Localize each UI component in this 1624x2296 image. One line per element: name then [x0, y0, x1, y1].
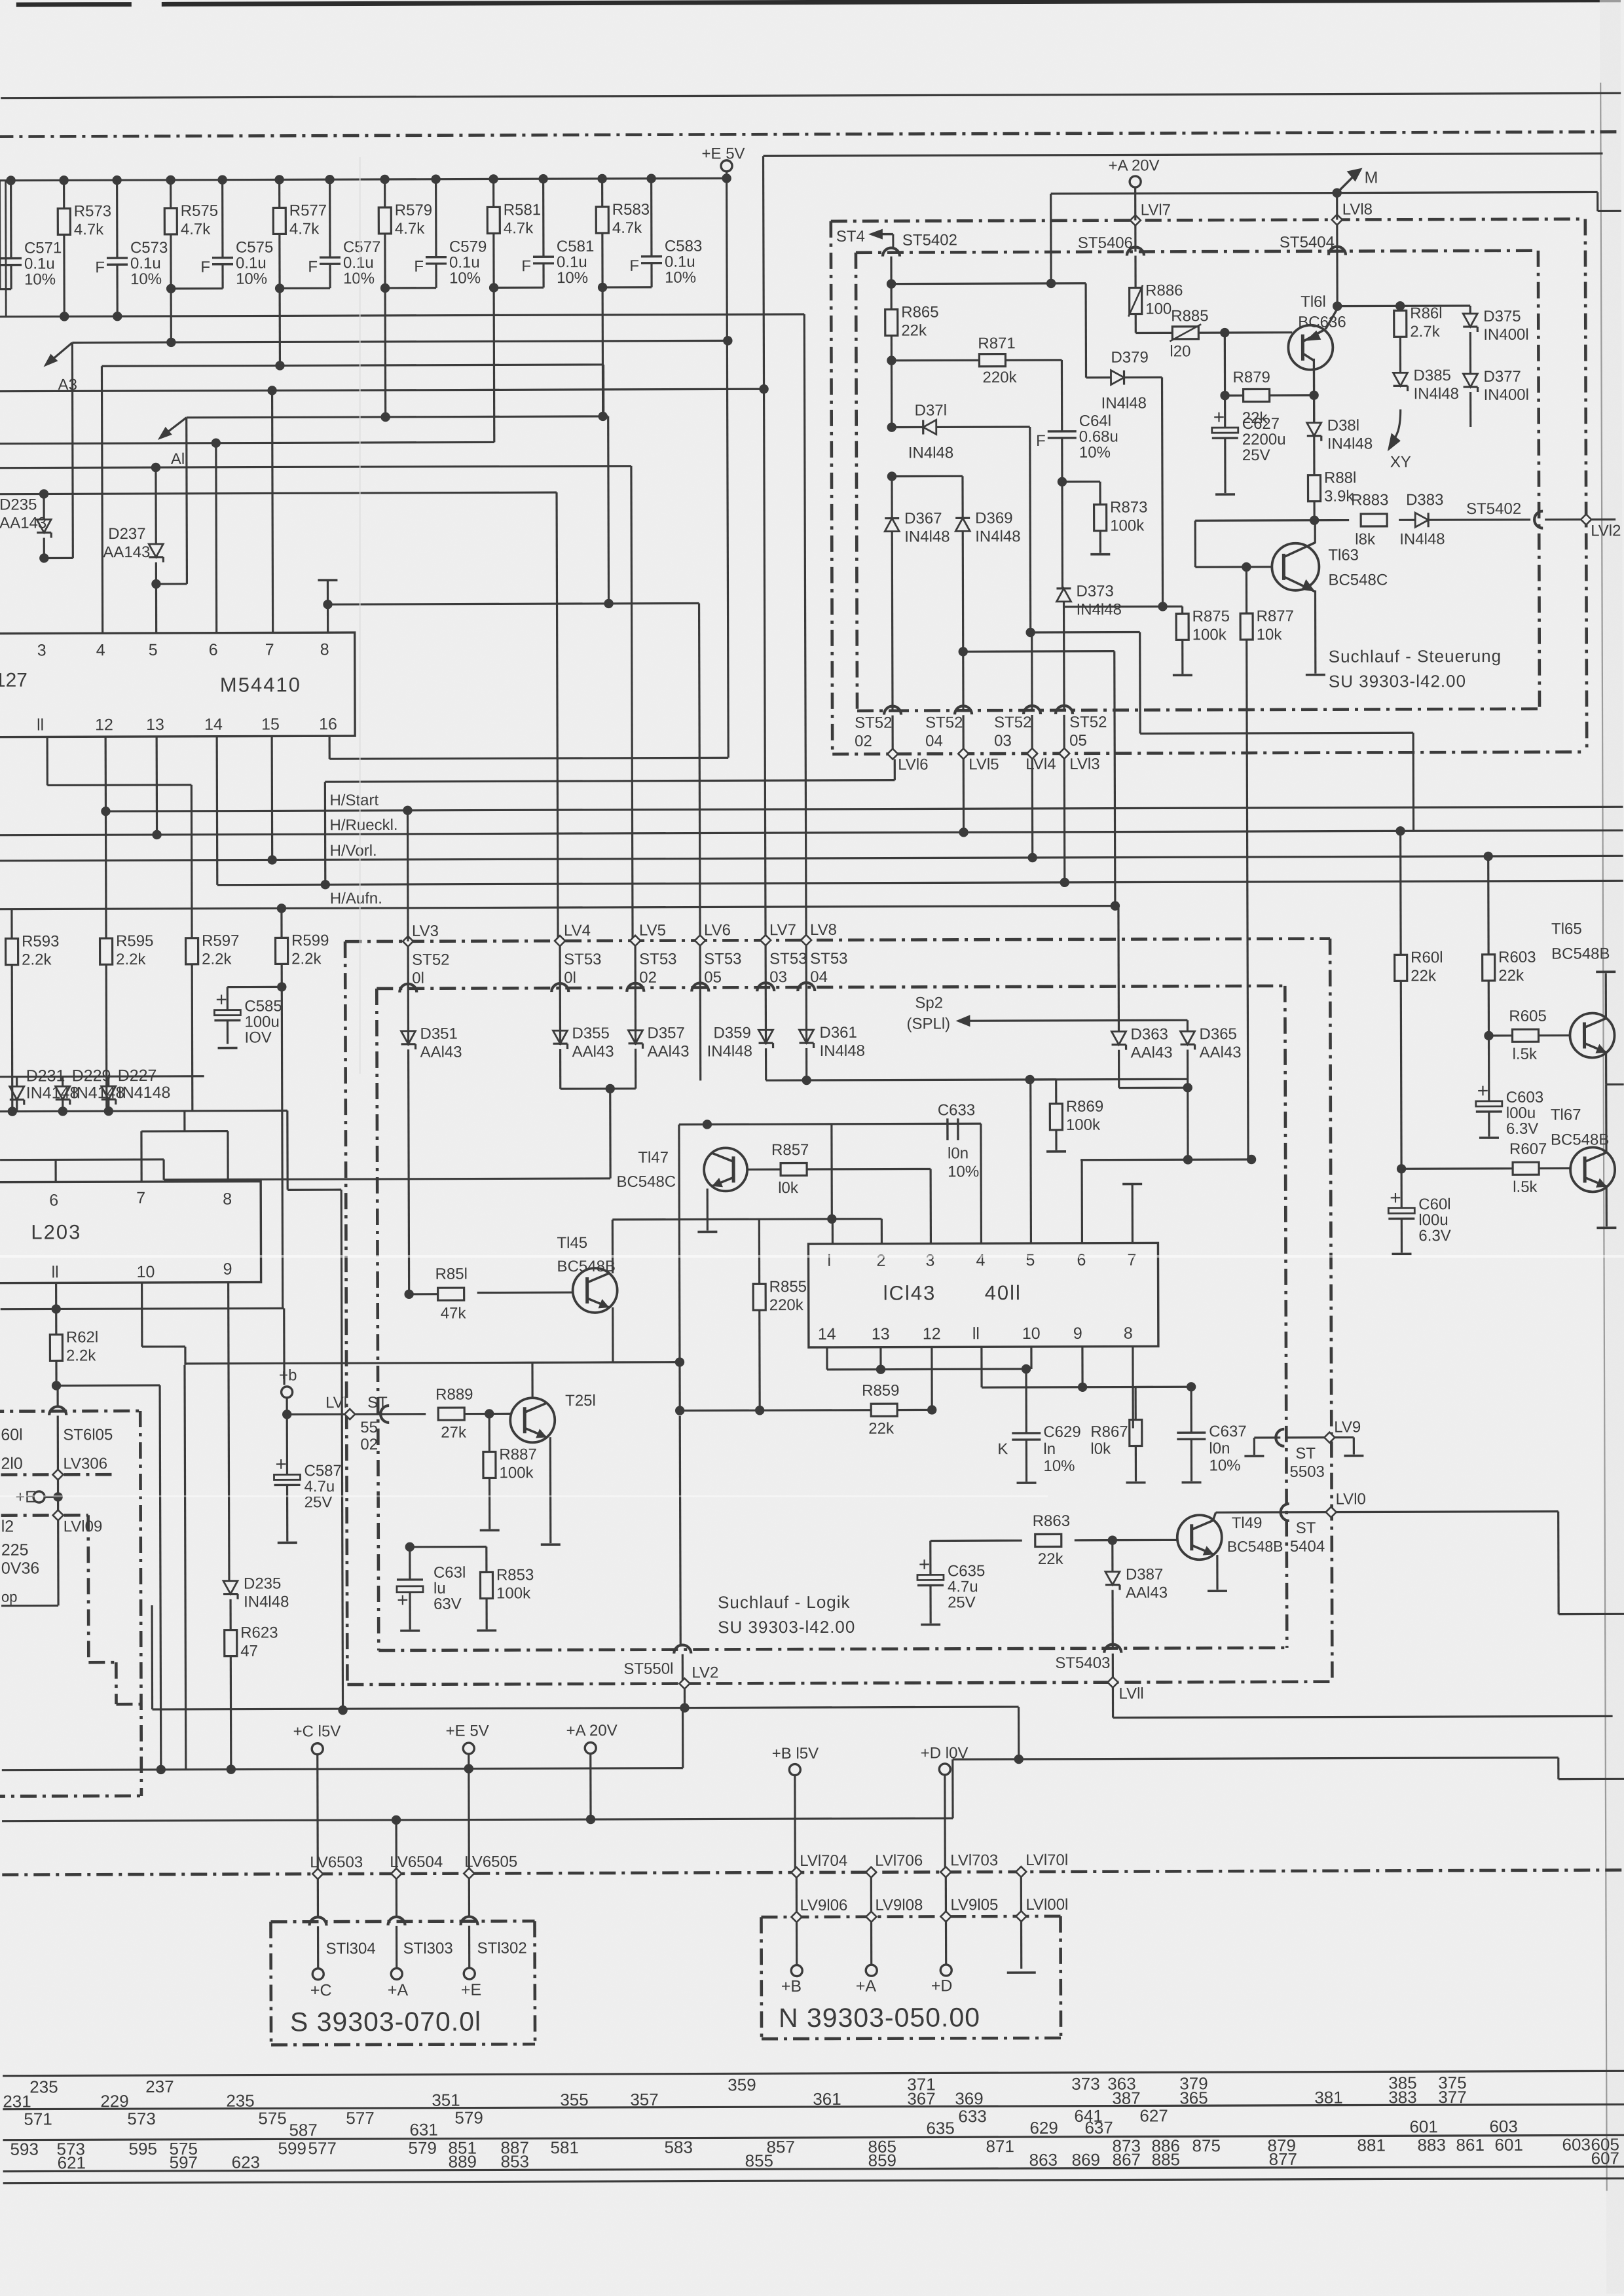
svg-text:LVl6: LVl6 [898, 756, 928, 773]
board outline Suchlauf-Steuerung inner box [856, 251, 1538, 253]
svg-text:Tl47: Tl47 [638, 1149, 669, 1167]
wire LV3 column from H/Start [407, 811, 409, 941]
svg-text:100: 100 [1145, 300, 1172, 318]
svg-text:IN400l: IN400l [1483, 326, 1528, 344]
svg-text:883: 883 [1417, 2135, 1445, 2155]
svg-text:5: 5 [1025, 1251, 1035, 1269]
wire pin6 stub [215, 443, 217, 633]
wire pin11 line y1196 [46, 737, 48, 785]
svg-text:LV5: LV5 [639, 922, 666, 939]
svg-text:ST53: ST53 [704, 950, 741, 968]
transistor T161 BC636 [1288, 325, 1333, 370]
wire pin15 stub [271, 736, 274, 860]
svg-text:+: + [1477, 1080, 1489, 1102]
svg-text:H/Start: H/Start [329, 792, 378, 809]
connector ST1303 [388, 1917, 405, 1925]
svg-text:571: 571 [24, 2109, 52, 2128]
number strip line 4 [3, 2166, 1624, 2171]
svg-text:ST5402: ST5402 [902, 231, 957, 249]
number strip line 5 [3, 2178, 1624, 2183]
svg-text:10%: 10% [665, 269, 696, 287]
svg-text:LV4: LV4 [564, 922, 591, 939]
svg-text:ll: ll [972, 1324, 980, 1343]
svg-text:225: 225 [1, 1541, 29, 1559]
wire pin9 column [1081, 1347, 1083, 1387]
wire LV1 / ST5502 line [287, 1413, 426, 1415]
svg-text:+E: +E [461, 1981, 481, 1999]
svg-text:+: + [275, 1453, 287, 1475]
wire R571 column remnant at left edge [0, 181, 1, 289]
resistor R597 2.2k [186, 938, 198, 964]
svg-text:871: 871 [986, 2136, 1014, 2156]
svg-text:4.7k: 4.7k [395, 220, 425, 238]
svg-text:AA143: AA143 [103, 543, 150, 561]
svg-text:D363: D363 [1130, 1025, 1168, 1043]
svg-text:IN4l48: IN4l48 [975, 528, 1020, 545]
connector ST5203 / LVl4 [1024, 706, 1041, 714]
svg-text:3: 3 [37, 641, 46, 659]
wire link to R601 region y1122 [1139, 632, 1141, 734]
svg-text:SU 39303-l42.00: SU 39303-l42.00 [718, 1617, 855, 1637]
svg-text:7: 7 [265, 640, 274, 659]
svg-text:577: 577 [346, 2108, 374, 2128]
diode D355 AA143 [553, 1030, 567, 1044]
board outline Suchlauf-Steuerung outer box [831, 219, 1585, 221]
svg-text:7: 7 [136, 1189, 145, 1207]
svg-text:607: 607 [1591, 2148, 1619, 2168]
wire pin16 line y1157 [329, 736, 331, 759]
capacitor C575 0.1u [217, 175, 227, 184]
svg-text:863: 863 [1029, 2150, 1058, 2170]
connector ST5205 / LVl3 [1056, 706, 1073, 714]
svg-text:+D: +D [931, 1977, 953, 1995]
svg-text:10%: 10% [24, 270, 56, 288]
diode D385 IN4148 [1399, 337, 1401, 373]
resistor R879 22k [1220, 391, 1229, 400]
board outline ST6105 box [0, 1410, 140, 1413]
svg-text:LV9l08: LV9l08 [875, 1897, 923, 1914]
wire R583 bottom to A1 line end [601, 233, 604, 416]
svg-text:875: 875 [1192, 2136, 1220, 2155]
svg-text:BC548B: BC548B [1551, 945, 1610, 962]
svg-text:R889: R889 [435, 1386, 473, 1404]
svg-text:Tl67: Tl67 [1551, 1106, 1581, 1124]
wire C633 right to pin4 [980, 1123, 982, 1243]
svg-text:LVl00l: LVl00l [1025, 1896, 1068, 1914]
connector ST1304 [309, 1917, 326, 1925]
scan crease artifacts [0, 1255, 1624, 1258]
capacitor C571 0.1u [6, 175, 15, 185]
svg-text:25V: 25V [948, 1594, 976, 1611]
svg-text:F: F [521, 257, 531, 275]
resistor R885 120 with slash [1135, 332, 1172, 334]
wire T163 collector up to line 797 [1314, 520, 1316, 543]
transistor T167 BC548B [1570, 1147, 1615, 1192]
svg-text:+A: +A [856, 1977, 877, 1995]
svg-text:LVl09: LVl09 [64, 1518, 103, 1535]
wire T165 emitter [1605, 1053, 1607, 1084]
board outline S 39303-070.01 box [271, 1921, 535, 1922]
svg-text:IN4148: IN4148 [118, 1084, 171, 1102]
box 225 0V36 partial [1, 1605, 58, 1607]
wire T145 emitter chain [612, 1307, 614, 1362]
svg-text:M: M [1365, 168, 1378, 187]
svg-text:l0k: l0k [778, 1179, 799, 1197]
svg-text:STl303: STl303 [403, 1940, 453, 1958]
wire D379 down to T163 base area [1162, 377, 1163, 606]
svg-text:Tl45: Tl45 [557, 1234, 587, 1252]
svg-text:F: F [308, 258, 318, 276]
diode D361 IN4148 [799, 1030, 813, 1043]
svg-text:5503: 5503 [1289, 1463, 1324, 1481]
wire R595 column [105, 964, 108, 1111]
svg-text:ST: ST [1296, 1520, 1316, 1537]
svg-text:l0k: l0k [1090, 1440, 1111, 1458]
svg-text:IN4l48: IN4l48 [1101, 394, 1147, 412]
resistor R601 22k [1399, 831, 1402, 955]
svg-text:237: 237 [145, 2077, 174, 2096]
svg-text:BC548C: BC548C [616, 1173, 676, 1191]
wire R577 bottom to line 556 [278, 234, 281, 365]
connector LV9105 [940, 1911, 951, 1922]
svg-text:F: F [629, 257, 639, 275]
wire line y594 pin7 net to LV7 [0, 389, 764, 391]
svg-text:H/Vorl.: H/Vorl. [330, 842, 377, 860]
resistor R889 27k [438, 1408, 464, 1420]
wire line y2625 to right edge [1113, 1716, 1613, 1717]
svg-text:9: 9 [1073, 1324, 1082, 1343]
svg-text:10: 10 [1022, 1324, 1041, 1343]
svg-text:STl302: STl302 [477, 1939, 527, 1957]
svg-text:579: 579 [408, 2138, 436, 2158]
svg-text:C629: C629 [1043, 1423, 1080, 1441]
svg-text:ST6l05: ST6l05 [63, 1426, 113, 1444]
svg-text:2.2k: 2.2k [116, 951, 146, 968]
wire T251 emitter ground [549, 1437, 552, 1543]
svg-text:IN4148: IN4148 [72, 1084, 125, 1102]
connector LV7 / ST5303 [760, 935, 771, 945]
svg-text:T25l: T25l [565, 1392, 596, 1410]
svg-text:Tl49: Tl49 [1232, 1514, 1263, 1532]
svg-text:XY: XY [1390, 453, 1411, 471]
svg-text:587: 587 [289, 2120, 317, 2140]
wire upper distribution line at y238 [764, 153, 1603, 156]
svg-text:4.7k: 4.7k [612, 219, 642, 237]
svg-text:H/Aufn.: H/Aufn. [330, 890, 382, 907]
svg-text:LV7: LV7 [769, 921, 796, 939]
svg-text:8: 8 [223, 1190, 232, 1209]
svg-text:LVl0: LVl0 [1336, 1490, 1366, 1508]
resistor R863 22k [1035, 1534, 1061, 1546]
svg-text:357: 357 [630, 2090, 658, 2109]
diode D351 AA143 [401, 1031, 415, 1044]
svg-text:D351: D351 [420, 1025, 457, 1043]
svg-text:60l: 60l [1, 1426, 22, 1444]
svg-text:+: + [397, 1590, 409, 1611]
wire vertical from pin10 elbow down to line 2700 [185, 1365, 186, 1770]
svg-text:3: 3 [925, 1251, 934, 1269]
svg-text:857: 857 [766, 2137, 794, 2157]
svg-text:22k: 22k [901, 321, 927, 339]
svg-text:4.7k: 4.7k [289, 220, 320, 238]
wire T163 base network [1195, 566, 1272, 568]
connector LV1001 [1016, 1911, 1026, 1922]
wire D237 junction to A1 elbow [156, 583, 187, 585]
wire T149 emitter ground [1216, 1555, 1218, 1590]
terminal +B [791, 1965, 802, 1977]
svg-text:R583: R583 [612, 201, 650, 219]
wire pin11 column [55, 1283, 57, 1309]
svg-text:ST52: ST52 [1069, 714, 1107, 731]
svg-text:R873: R873 [1110, 498, 1147, 516]
svg-text:D359: D359 [713, 1024, 750, 1042]
svg-text:ST4: ST4 [836, 228, 865, 246]
svg-text:2l0: 2l0 [1, 1455, 22, 1473]
svg-text:ST5404: ST5404 [1280, 234, 1335, 251]
wire D371 to D373 chain [1029, 427, 1031, 632]
wire R597 column [191, 964, 194, 1111]
svg-text:601: 601 [1494, 2135, 1522, 2155]
svg-text:ll: ll [37, 716, 44, 734]
capacitor C581 0.1u [538, 174, 547, 183]
transistor T163 BC548C [1272, 543, 1319, 591]
svg-text:F: F [414, 258, 424, 276]
number strip line 2 [3, 2104, 1624, 2109]
svg-text:ln: ln [1043, 1440, 1056, 1458]
diode D377 IN4001 [1469, 332, 1471, 374]
svg-text:0V36: 0V36 [1, 1559, 39, 1578]
wire LV11 down to line 2625 [1112, 1688, 1114, 1718]
wire line y2778 +A feed [2, 1818, 953, 1821]
svg-text:BC636: BC636 [1298, 314, 1346, 331]
svg-text:LVl704: LVl704 [800, 1852, 847, 1870]
svg-text:+C: +C [310, 1981, 332, 1999]
svg-text:R623: R623 [240, 1624, 278, 1641]
wire pin11 column [980, 1347, 982, 1387]
resistor R607 1.5k [1401, 1167, 1513, 1170]
svg-text:ST53: ST53 [564, 951, 601, 968]
svg-text:2.2k: 2.2k [22, 951, 52, 968]
svg-text:+A: +A [388, 1981, 409, 1999]
wire pin6 line y1773 [1080, 1158, 1251, 1161]
diode D383 IN4148 [1415, 513, 1428, 527]
resistor R575 4.7k [166, 175, 175, 185]
wire line y996 from D369 to right column [959, 647, 968, 656]
svg-text:Tl6l: Tl6l [1301, 293, 1326, 311]
wire line y797 R883 D383 [1195, 519, 1349, 522]
capacitor C585 100u 10V [227, 986, 282, 988]
svg-text:LVl5: LVl5 [969, 756, 999, 773]
wire D235 bottom jog to A3 column [44, 557, 73, 559]
svg-text:C637: C637 [1209, 1423, 1246, 1440]
IC IC143 4011 body [808, 1243, 1158, 1347]
svg-text:603: 603 [1562, 2134, 1590, 2154]
wire T145 base line [477, 1291, 573, 1294]
resistor R865 22k [890, 257, 892, 310]
resistor R603 22k [1487, 856, 1490, 955]
svg-text:ST53: ST53 [769, 950, 807, 968]
svg-text:LVl3: LVl3 [1069, 756, 1099, 773]
wire T147 emitter to ground [707, 1188, 709, 1230]
svg-text:+: + [215, 989, 227, 1011]
wire line y674 pin6 net [0, 442, 494, 443]
diode D359 IN4148 [758, 1030, 773, 1043]
wire pin12 to R595 [105, 737, 107, 938]
svg-text:10%: 10% [1209, 1457, 1240, 1474]
wire ST5404 into box [1336, 224, 1338, 306]
connector LV6504 [391, 1868, 401, 1879]
wire R859 line y2154 [680, 1409, 871, 1412]
svg-text:04: 04 [810, 968, 828, 986]
wire pin13 stub [156, 737, 158, 835]
svg-text:LV2: LV2 [692, 1664, 718, 1681]
svg-text:IN4148: IN4148 [26, 1084, 79, 1102]
svg-text:D365: D365 [1199, 1025, 1236, 1043]
diode D381 IN4148 [1307, 423, 1321, 436]
terminal +A [866, 1965, 877, 1976]
diode D379 IN4148 [1086, 376, 1111, 378]
svg-text:2.2k: 2.2k [66, 1347, 96, 1364]
svg-text:F: F [95, 259, 105, 276]
transistor T145 BC548B [573, 1268, 618, 1313]
svg-text:8: 8 [1124, 1324, 1133, 1343]
wire R621 bottom to box feed [55, 1360, 57, 1385]
capacitor C573 0.1u [112, 175, 121, 185]
resistor R605 1.5k [1488, 1034, 1512, 1036]
svg-text:869: 869 [1072, 2150, 1100, 2170]
svg-text:05: 05 [704, 968, 722, 986]
svg-text:02: 02 [855, 733, 872, 750]
wire line y2113 [56, 1384, 160, 1387]
wire LVI6 exit down-left [894, 759, 896, 780]
svg-text:387: 387 [1112, 2088, 1140, 2108]
svg-text:R575: R575 [181, 202, 218, 220]
resistor R877 10k [1246, 567, 1247, 613]
connector LV3 / ST520l [403, 936, 413, 947]
svg-text:R865: R865 [901, 303, 938, 321]
resistor R887 100k [489, 1413, 490, 1451]
svg-text:603: 603 [1489, 2117, 1517, 2136]
wire A1 line y635 [187, 416, 608, 418]
svg-text:AA143: AA143 [0, 514, 46, 532]
svg-text:8: 8 [320, 640, 329, 659]
svg-text:R593: R593 [22, 932, 59, 950]
svg-text:5404: 5404 [1290, 1538, 1325, 1556]
diode D365 AA143 [1187, 1020, 1189, 1031]
wire A3 line y520 [72, 340, 728, 342]
terminal +D [940, 1965, 951, 1976]
svg-text:R879: R879 [1232, 369, 1270, 386]
svg-text:+b: +b [279, 1366, 297, 1384]
connector LV6 / ST5305 [695, 935, 705, 945]
resistor R869 100k [1031, 1078, 1056, 1080]
connector ST5403 / LV11 [1104, 1645, 1121, 1653]
connector LV9106 [791, 1912, 802, 1922]
capacitor C601 100u 6.3V [1400, 1169, 1402, 1208]
svg-text:IN4l48: IN4l48 [1327, 435, 1373, 452]
resistor R599 2.2k [276, 938, 288, 964]
node A3 arrow [47, 342, 72, 363]
svg-text:R60l: R60l [1411, 949, 1443, 966]
wire R573 bottom to line 480 [63, 234, 65, 316]
svg-text:877: 877 [1269, 2149, 1297, 2169]
wire LV6 column down [699, 1045, 701, 1081]
svg-text:D357: D357 [647, 1025, 684, 1042]
svg-text:ST: ST [367, 1394, 388, 1412]
svg-text:6.3V: 6.3V [1418, 1227, 1450, 1245]
svg-text:601: 601 [1409, 2117, 1437, 2136]
capacitor C641 0.68u [1061, 360, 1063, 431]
svg-text:BC548B: BC548B [557, 1258, 615, 1275]
dash-dot staircase inside box [86, 1515, 90, 1662]
svg-text:LVl: LVl [325, 1394, 347, 1412]
svg-text:7: 7 [1127, 1251, 1136, 1269]
svg-text:R863: R863 [1033, 1512, 1070, 1530]
wire D355-D357 join y1662 [561, 1087, 636, 1090]
wire pin6 stub up [1080, 1160, 1083, 1243]
svg-text:6.3V: 6.3V [1506, 1120, 1538, 1138]
svg-text:623: 623 [232, 2153, 260, 2172]
capacitor C603 100u 6.3V [1488, 1036, 1490, 1101]
svg-text:235: 235 [29, 2077, 58, 2096]
wire T147 collector line y1717 [679, 1123, 981, 1124]
svg-text:ST5406: ST5406 [1078, 234, 1133, 252]
wire LV17xx columns down through LV91xx [796, 1878, 798, 1965]
svg-text:635: 635 [926, 2118, 954, 2138]
transistor T165 BC548B [1570, 1013, 1614, 1057]
svg-text:D237: D237 [108, 525, 145, 543]
svg-text:369: 369 [955, 2088, 983, 2108]
resistor R855 220k [758, 1219, 760, 1284]
svg-text:C577: C577 [343, 238, 380, 256]
connector LV1706 [866, 1867, 876, 1878]
svg-text:361: 361 [813, 2089, 841, 2109]
svg-text:D361: D361 [819, 1024, 857, 1042]
svg-text:l0n: l0n [1209, 1440, 1230, 1457]
svg-text:IN4l48: IN4l48 [244, 1593, 289, 1611]
wire R579 bottom to A1 line [384, 234, 386, 417]
diode D231 IN4148 [16, 1077, 18, 1087]
wire T165 collector antenna [1605, 973, 1607, 1019]
svg-text:IOV: IOV [244, 1029, 271, 1046]
wire pin7 stub [272, 390, 273, 632]
svg-text:D383: D383 [1406, 491, 1443, 509]
svg-text:100k: 100k [1066, 1116, 1101, 1134]
transistor T147 BC548C [704, 1148, 747, 1191]
svg-text:377: 377 [1438, 2087, 1466, 2107]
svg-text:AAl43: AAl43 [1126, 1584, 1168, 1601]
svg-text:IN400l: IN400l [1484, 386, 1529, 404]
board outline Suchlauf-Logik inner box [377, 986, 1285, 989]
svg-text:+: + [1213, 407, 1225, 428]
resistor R875 100k [1181, 606, 1183, 613]
diode D229 IN4148 [62, 1076, 64, 1086]
svg-text:IN4l48: IN4l48 [820, 1042, 865, 1060]
svg-text:4.7k: 4.7k [504, 219, 534, 237]
svg-text:859: 859 [868, 2151, 896, 2170]
connector LV12 [1581, 514, 1591, 524]
board outline Suchlauf-Logik outer box [345, 939, 1330, 941]
wire line y2700 +E feed [2, 1768, 683, 1770]
svg-text:R875: R875 [1192, 608, 1230, 625]
wire R599 column [280, 908, 282, 938]
connector LV5 / ST5302 [630, 936, 640, 946]
svg-text:2.2k: 2.2k [202, 951, 232, 968]
svg-text:2: 2 [876, 1252, 885, 1270]
diode D235 IN4148 lower [223, 1581, 238, 1594]
svg-text:Al: Al [171, 450, 185, 468]
IC M54410 body [0, 632, 355, 737]
